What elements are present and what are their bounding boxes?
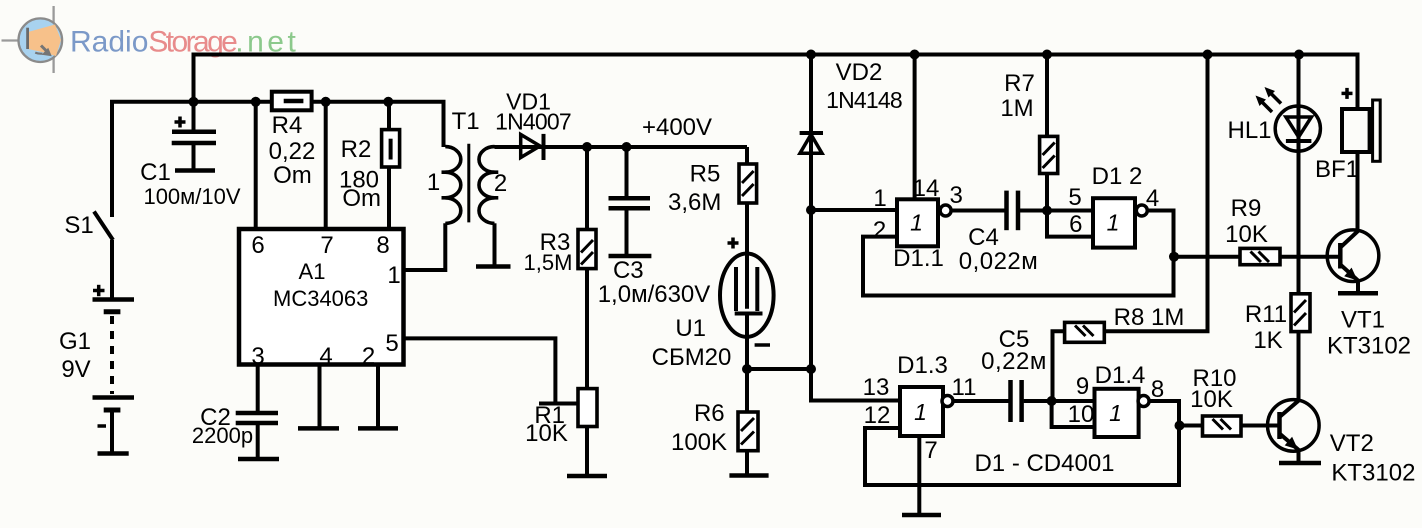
svg-text:BF1: BF1 [1315, 156, 1359, 183]
svg-text:4: 4 [319, 343, 332, 370]
svg-text:7: 7 [924, 437, 937, 464]
svg-text:R8 1M: R8 1M [1114, 304, 1185, 331]
svg-text:D1.1: D1.1 [893, 245, 944, 272]
svg-text:10K: 10K [1225, 221, 1268, 248]
svg-text:R6: R6 [694, 400, 725, 427]
svg-text:D1 - CD4001: D1 - CD4001 [974, 450, 1114, 477]
svg-text:VD2: VD2 [836, 59, 883, 86]
svg-text:1: 1 [387, 262, 400, 289]
svg-text:6: 6 [1069, 211, 1082, 238]
svg-text:2200p: 2200p [192, 423, 253, 448]
svg-text:100м/10V: 100м/10V [143, 184, 240, 209]
svg-text:1: 1 [1109, 400, 1122, 426]
svg-text:D1.3: D1.3 [897, 352, 948, 379]
svg-text:D1 2: D1 2 [1092, 163, 1143, 190]
svg-text:A1: A1 [299, 259, 326, 284]
svg-text:СБМ20: СБМ20 [652, 344, 732, 371]
svg-text:1: 1 [873, 185, 886, 212]
svg-text:R4: R4 [272, 112, 303, 139]
svg-text:2: 2 [494, 170, 507, 197]
svg-text:1K: 1K [1253, 327, 1282, 354]
svg-text:9: 9 [1076, 373, 1089, 400]
svg-text:1: 1 [427, 169, 440, 196]
svg-text:8: 8 [1151, 376, 1164, 403]
svg-text:10K: 10K [1190, 386, 1233, 413]
svg-text:1: 1 [914, 399, 927, 425]
svg-text:0,22м: 0,22м [981, 348, 1047, 375]
svg-text:R2: R2 [341, 136, 372, 163]
svg-text:1M: 1M [1000, 95, 1033, 122]
svg-text:0,022м: 0,022м [959, 248, 1039, 275]
svg-text:T1: T1 [452, 108, 480, 135]
svg-text:3: 3 [950, 182, 963, 209]
svg-text:Om: Om [273, 162, 312, 189]
svg-text:R11: R11 [1245, 301, 1287, 328]
svg-text:4: 4 [1146, 185, 1159, 212]
svg-text:100K: 100K [671, 429, 727, 456]
svg-text:5: 5 [385, 330, 398, 357]
svg-text:C4: C4 [968, 224, 999, 251]
svg-text:2: 2 [362, 343, 375, 370]
svg-text:14: 14 [913, 175, 940, 202]
svg-text:KT3102: KT3102 [1327, 333, 1411, 360]
svg-text:0,22: 0,22 [269, 138, 316, 165]
svg-text:1,0м/630V: 1,0м/630V [598, 281, 711, 308]
svg-text:12: 12 [864, 402, 891, 429]
svg-text:R7: R7 [1004, 70, 1035, 97]
svg-text:1: 1 [1107, 210, 1120, 236]
svg-text:C1: C1 [140, 159, 171, 186]
svg-text:U1: U1 [675, 315, 706, 342]
svg-text:1,5M: 1,5M [524, 250, 573, 275]
svg-text:10K: 10K [525, 420, 568, 447]
svg-text:13: 13 [863, 374, 890, 401]
svg-text:Om: Om [342, 185, 381, 212]
svg-text:8: 8 [376, 232, 389, 259]
svg-text:R5: R5 [690, 161, 721, 188]
svg-text:3,6M: 3,6M [668, 189, 721, 216]
svg-text:9V: 9V [61, 356, 90, 383]
svg-text:1N4148: 1N4148 [826, 87, 902, 113]
svg-text:7: 7 [320, 232, 333, 259]
svg-text:G1: G1 [59, 328, 91, 355]
svg-text:R9: R9 [1231, 195, 1262, 222]
svg-text:VT1: VT1 [1341, 307, 1385, 334]
svg-text:6: 6 [251, 232, 264, 259]
svg-text:+400V: +400V [642, 114, 712, 141]
svg-text:KT3102: KT3102 [1331, 460, 1415, 487]
svg-text:MC34063: MC34063 [273, 286, 368, 311]
svg-text:D1.4: D1.4 [1095, 362, 1146, 389]
svg-text:10: 10 [1068, 401, 1095, 428]
svg-text:1N4007: 1N4007 [495, 109, 571, 135]
svg-text:C3: C3 [613, 257, 644, 284]
svg-text:11: 11 [952, 374, 977, 401]
svg-text:VT2: VT2 [1330, 430, 1374, 457]
svg-text:1: 1 [910, 210, 923, 236]
svg-text:2: 2 [873, 217, 886, 244]
svg-text:HL1: HL1 [1227, 117, 1271, 144]
svg-text:3: 3 [251, 343, 264, 370]
svg-text:5: 5 [1068, 184, 1081, 211]
svg-text:S1: S1 [64, 212, 93, 239]
